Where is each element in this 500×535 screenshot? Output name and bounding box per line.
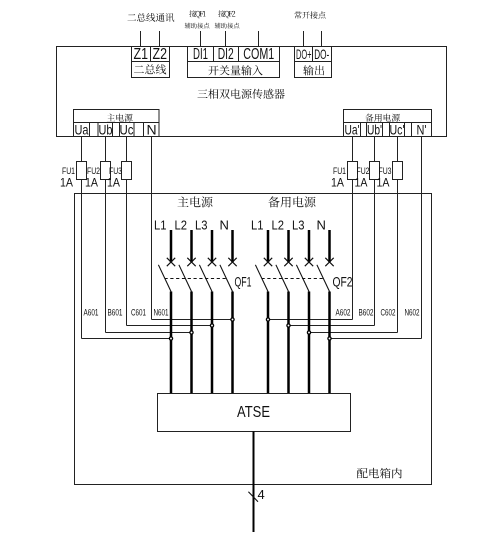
svg-text:L3: L3 xyxy=(195,218,208,233)
label 配电箱内 xyxy=(357,468,402,479)
label 辅助接点 right xyxy=(215,23,240,29)
label 备用电源 (QF2 feeder) xyxy=(268,196,315,207)
wire Ub2 fuse to rail xyxy=(374,180,376,326)
svg-text:1A: 1A xyxy=(355,178,368,190)
label 主电源 (QF1 feeder) xyxy=(178,196,213,207)
svg-text:4: 4 xyxy=(258,487,265,502)
conductor count slash xyxy=(248,492,258,502)
QF1 pole 2 input line xyxy=(190,230,193,262)
fuse FU2 (backup) xyxy=(370,162,380,180)
QF1 pole 2 contact X xyxy=(187,258,195,266)
node C602 junction xyxy=(307,331,310,334)
svg-text:FU1: FU1 xyxy=(333,166,346,176)
wire Z2 stub xyxy=(159,31,161,47)
QF2 pole 1 output column xyxy=(267,292,270,394)
QF1 pole 3 input line xyxy=(211,230,214,262)
QF2 pole 3 contact X xyxy=(305,258,313,266)
svg-text:1A: 1A xyxy=(377,178,390,190)
fuse FU2 (main) xyxy=(101,162,111,180)
wire rail to QF2 column xyxy=(268,319,353,321)
QF2 pole 3 blade xyxy=(296,265,309,292)
svg-text:FU2: FU2 xyxy=(357,166,370,176)
svg-text:1A: 1A xyxy=(60,178,73,190)
wire Ua2 drop to fuse xyxy=(352,137,354,162)
svg-text:QF2: QF2 xyxy=(333,274,353,290)
wire rail to QF1 column xyxy=(106,332,192,334)
label 三相双电源传感器 xyxy=(198,89,285,99)
svg-text:Ub': Ub' xyxy=(367,122,382,138)
QF1 pole 3 contact X xyxy=(208,258,216,266)
svg-text:Uc': Uc' xyxy=(390,122,405,138)
wire Z1 stub xyxy=(140,31,142,47)
svg-text:B602: B602 xyxy=(359,307,374,317)
label 二总线 xyxy=(134,64,166,74)
QF1 pole 4 output column xyxy=(231,292,234,394)
svg-text:A601: A601 xyxy=(84,307,99,317)
svg-text:N: N xyxy=(220,218,229,233)
distribution box 配电箱内 xyxy=(75,194,432,485)
terminal strip Ua Ub Uc N xyxy=(74,123,160,137)
node C601 junction xyxy=(210,324,213,327)
fuse FU1 (main) xyxy=(77,162,87,180)
terminal DO- xyxy=(313,47,332,62)
svg-text:Z2: Z2 xyxy=(153,46,168,63)
label box 开关量输入 xyxy=(188,62,280,78)
node B602 junction xyxy=(287,324,290,327)
node A601 junction xyxy=(169,337,172,340)
svg-text:N602: N602 xyxy=(405,307,420,317)
QF1 pole 1 contact X xyxy=(167,258,175,266)
QF1 pole 2 output column xyxy=(190,292,193,394)
QF1 linkage dashed line xyxy=(165,278,227,280)
svg-text:DI2: DI2 xyxy=(218,46,234,63)
label 备用电源 sensor xyxy=(365,114,400,122)
QF2 pole 2 output column xyxy=(287,292,290,394)
wire Ua fuse to rail xyxy=(81,180,83,339)
label box 备用电源 (sensor backup input) xyxy=(344,110,432,123)
QF2 pole 3 input line xyxy=(308,230,311,262)
svg-text:Ua: Ua xyxy=(75,122,89,138)
QF2 pole 4 output column xyxy=(328,292,331,394)
QF1 pole 2 blade xyxy=(179,265,192,292)
label 输出 xyxy=(303,65,324,75)
label box 输出 xyxy=(295,62,332,78)
wire Ub fuse to rail xyxy=(105,180,107,333)
svg-text:C602: C602 xyxy=(381,307,396,317)
label 二总线通讯 xyxy=(128,13,175,22)
svg-text:FU1: FU1 xyxy=(62,166,75,176)
svg-text:ATSE: ATSE xyxy=(237,404,270,421)
QF2 pole 4 contact X xyxy=(325,258,333,266)
svg-text:Z1: Z1 xyxy=(134,46,149,63)
wire Ua drop to fuse xyxy=(81,137,83,162)
ATSE box U2 xyxy=(158,394,351,432)
terminal Z2 xyxy=(151,47,170,62)
svg-text:N': N' xyxy=(417,122,427,138)
svg-text:1A: 1A xyxy=(107,178,120,190)
label 主电源 sensor xyxy=(107,114,133,122)
svg-text:L2: L2 xyxy=(272,218,285,233)
wire N' rail to QF2 column xyxy=(330,338,422,340)
fuse FU1 (backup) xyxy=(348,162,358,180)
node B601 junction xyxy=(190,331,193,334)
QF2 linkage dashed line xyxy=(262,278,324,280)
terminal COM1 xyxy=(239,47,280,62)
wire rail to QF2 column xyxy=(289,325,375,327)
svg-text:COM1: COM1 xyxy=(243,46,274,63)
node A602 junction xyxy=(266,318,269,321)
wire DI2 stub xyxy=(225,31,227,47)
svg-text:N: N xyxy=(146,122,156,138)
QF2 pole 4 blade xyxy=(317,265,330,292)
svg-text:1A: 1A xyxy=(85,178,98,190)
sensor U1 三相双电源传感器 box xyxy=(57,47,447,137)
label 接QF2 xyxy=(218,10,235,18)
svg-text:L3: L3 xyxy=(292,218,305,233)
svg-text:Ua': Ua' xyxy=(345,122,360,138)
wire rail to QF2 column xyxy=(309,332,398,334)
terminal strip Ua' Ub' Uc' N' xyxy=(344,123,432,137)
svg-text:DI1: DI1 xyxy=(193,46,208,63)
svg-text:Uc: Uc xyxy=(120,122,134,138)
QF2 pole 2 blade xyxy=(276,265,289,292)
QF2 pole 1 contact X xyxy=(264,258,272,266)
label 常开接点 xyxy=(294,11,325,18)
wire Uc2 drop to fuse xyxy=(397,137,399,162)
svg-text:1A: 1A xyxy=(331,178,344,190)
wire rail to QF1 column xyxy=(127,325,213,327)
wire N rail to QF1 column xyxy=(152,319,233,321)
QF1 pole 4 input line xyxy=(231,230,234,262)
QF1 pole 1 output column xyxy=(170,292,173,394)
svg-text:DO+: DO+ xyxy=(296,46,312,62)
wire Uc fuse to rail xyxy=(126,180,128,326)
svg-text:L2: L2 xyxy=(175,218,188,233)
QF2 pole 1 blade xyxy=(255,265,268,292)
label 辅助接点 left xyxy=(185,23,210,29)
wire Ub2 drop to fuse xyxy=(374,137,376,162)
node N601 junction xyxy=(231,318,234,321)
label box 主电源 (sensor main input) xyxy=(74,110,160,123)
node N602 junction xyxy=(328,337,331,340)
QF1 pole 1 blade xyxy=(158,265,171,292)
QF1 pole 4 contact X xyxy=(228,258,236,266)
svg-text:FU3: FU3 xyxy=(379,166,392,176)
svg-text:C601: C601 xyxy=(131,307,146,317)
wire Uc drop to fuse xyxy=(126,137,128,162)
terminal DI2 xyxy=(214,47,239,62)
wire Ua2 fuse to rail xyxy=(352,180,354,320)
svg-text:A602: A602 xyxy=(336,307,351,317)
terminal Z1 xyxy=(132,47,151,62)
terminal DO+ xyxy=(295,47,313,62)
label 接QF1 xyxy=(189,10,206,18)
svg-text:FU3: FU3 xyxy=(109,166,122,176)
QF2 pole 1 input line xyxy=(267,230,270,262)
wire N drop xyxy=(151,137,153,320)
label 开关量输入 xyxy=(208,65,262,75)
wire rail to QF1 column xyxy=(82,338,172,340)
svg-text:B601: B601 xyxy=(108,307,123,317)
svg-text:N: N xyxy=(317,218,326,233)
QF1 pole 3 output column xyxy=(211,292,214,394)
terminal DI1 xyxy=(188,47,214,62)
fuse FU3 (main) xyxy=(122,162,132,180)
svg-text:L1: L1 xyxy=(251,218,264,233)
fuse FU3 (backup) xyxy=(393,162,403,180)
svg-text:L1: L1 xyxy=(154,218,167,233)
svg-text:Ub: Ub xyxy=(99,122,113,138)
wire DO+ stub xyxy=(303,31,305,47)
wire COM1 stub xyxy=(258,31,260,47)
svg-text:N601: N601 xyxy=(154,307,169,317)
svg-text:DO-: DO- xyxy=(314,46,329,62)
QF2 pole 2 input line xyxy=(287,230,290,262)
QF2 pole 3 output column xyxy=(308,292,311,394)
wire DO- stub xyxy=(321,31,323,47)
wire DI1 stub xyxy=(200,31,202,47)
label box 二总线 xyxy=(132,62,170,78)
QF2 pole 4 input line xyxy=(328,230,331,262)
QF1 pole 3 blade xyxy=(199,265,212,292)
svg-text:FU2: FU2 xyxy=(87,166,100,176)
QF2 pole 2 contact X xyxy=(284,258,292,266)
wire Uc2 fuse to rail xyxy=(397,180,399,333)
QF1 pole 4 blade xyxy=(220,265,233,292)
QF1 pole 1 input line xyxy=(170,230,173,262)
svg-text:QF1: QF1 xyxy=(235,274,252,290)
wire ATSE output feeder xyxy=(253,432,255,533)
wire N' drop xyxy=(421,137,423,339)
wire Ub drop to fuse xyxy=(105,137,107,162)
